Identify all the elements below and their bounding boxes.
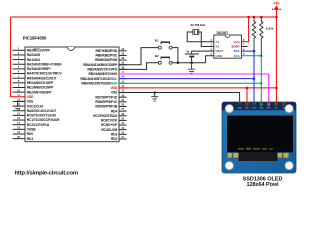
SSD1306 OLED module PCB	[222, 102, 296, 173]
svg-text:VDD: VDD	[27, 95, 34, 99]
DS1307 U2 body	[214, 31, 242, 58]
pin 1 MCLR overline	[33, 48, 40, 50]
svg-text:OSC1/CLKI: OSC1/CLKI	[27, 104, 44, 108]
battery 3v	[185, 50, 199, 57]
PIC pin 35 RB2/AN8/INT2/VMO	[89, 70, 127, 76]
svg-text:RB0/AN12/INT0/SDI/SDA: RB0/AN12/INT0/SDI/SDA	[81, 81, 118, 85]
wire +5V vertical to OLED DC	[275, 10, 277, 104]
svg-text:RC7/RX/DT/SDO: RC7/RX/DT/SDO	[93, 114, 117, 118]
PIC pin 5 RA3/AN3/VREF+	[13, 65, 52, 71]
wire B1 right to common	[172, 48, 178, 63]
svg-text:VUSB: VUSB	[27, 128, 36, 132]
svg-text:RB4/AN11/KBI0/CSSPP: RB4/AN11/KBI0/CSSPP	[83, 63, 118, 67]
PIC pin 21 RD2	[111, 135, 127, 141]
PIC pin 2 RA0/AN0	[13, 51, 41, 57]
OLED screen glint	[238, 148, 273, 150]
wire battery plus to DS1307 VBAT	[192, 51, 214, 54]
OLED header pads	[238, 102, 285, 106]
svg-text:RD1: RD1	[27, 137, 34, 141]
PIC pin 12 VSS	[13, 98, 34, 104]
PIC pin 14 RA6/OSC2/CLKOUT	[13, 107, 57, 113]
DS1307 SOUT stub	[241, 45, 247, 47]
svg-text:32.768 kHz: 32.768 kHz	[190, 23, 205, 27]
svg-text:SDA: SDA	[233, 54, 240, 58]
svg-text:RD6/SPP6/P1C: RD6/SPP6/P1C	[95, 100, 118, 104]
svg-text:RB2/AN8/INT2/VMO: RB2/AN8/INT2/VMO	[89, 72, 118, 76]
PIC pin 37 RB4/AN11/KBI0/CSSPP	[83, 61, 126, 67]
DS1307 pin 4 GND	[210, 52, 223, 58]
PIC VSS pin 12 wire to ground	[18, 101, 25, 106]
wire battery minus	[191, 57, 193, 63]
ground symbol battery	[188, 63, 195, 74]
PIC pin 27 RD4	[111, 107, 127, 113]
wire drop to OLED VDD pad	[246, 88, 248, 103]
svg-text:GND: GND	[237, 107, 242, 109]
junction dots buttons	[177, 62, 193, 64]
DS1307 pin 1 X1	[210, 38, 219, 44]
svg-text:VDD: VDD	[111, 86, 118, 90]
PIC pin 25 RC6/TX/CK	[101, 117, 127, 123]
wire +5V top rail	[11, 16, 277, 18]
svg-text:RA2/AN2/VREF-/CVREF: RA2/AN2/VREF-/CVREF	[27, 62, 62, 66]
svg-text:RB7/KBI3/PGD: RB7/KBI3/PGD	[96, 49, 118, 53]
crystal 32.768 kHz X1	[190, 23, 205, 35]
svg-text:SCK: SCK	[252, 107, 257, 109]
PIC pin 36 RB3/AN9/CCP2/VPO	[87, 65, 126, 71]
wire +5V left drop to PIC VDD pin 11	[11, 17, 25, 97]
svg-text:RES: RES	[267, 107, 272, 109]
svg-text:RA5/AN4/SS/C2OUT: RA5/AN4/SS/C2OUT	[27, 76, 57, 80]
wire B1 to RB4 pin 37	[119, 48, 158, 65]
svg-text:RB5/KBI1/PGM: RB5/KBI1/PGM	[95, 58, 117, 62]
svg-text:DS1307: DS1307	[217, 31, 229, 35]
svg-text:3v: 3v	[186, 50, 190, 54]
push button B1	[155, 39, 172, 50]
ground symbol mid	[151, 93, 158, 102]
PIC pin 11 VDD	[17, 93, 34, 99]
wire SCL vertical DS1307 to OLED	[241, 51, 254, 103]
PIC pin 20 RD1	[13, 135, 34, 141]
OLED flex ribbon	[228, 152, 289, 161]
PIC pin 29 RD6/SPP6/P1C	[95, 98, 126, 104]
PIC pin 18 VUSB	[13, 125, 37, 131]
ground symbol left	[14, 106, 21, 110]
PIC pin 22 RD3	[111, 130, 127, 136]
DS1307 pin 2 X2	[210, 43, 219, 49]
svg-text:RD2: RD2	[111, 137, 118, 141]
wire crystal right to DS1307 X2	[199, 32, 214, 46]
PIC pin 31 VSS	[111, 89, 127, 95]
svg-text:RE1/AN6/CK2SPP: RE1/AN6/CK2SPP	[27, 86, 54, 90]
PIC pin 17 RC2/CCP1/P1A	[13, 121, 50, 127]
PIC pin 23 RC4/D-/VM	[101, 126, 126, 132]
DS1307 pin 7 SOUT	[231, 43, 245, 49]
PIC pin 3 RA1/AN1	[13, 56, 41, 62]
junction dots red VDD line	[246, 87, 278, 89]
PIC pin 1 RE3/MCLR/VPP	[13, 46, 51, 52]
wire B2 to RB3 pin 36	[119, 63, 158, 70]
svg-text:RD3: RD3	[111, 132, 118, 136]
svg-text:X2: X2	[215, 45, 219, 49]
svg-text:RD5/SPP5/P1B: RD5/SPP5/P1B	[95, 105, 118, 109]
svg-text:VSS: VSS	[111, 91, 118, 95]
PIC pin 38 RB5/KBI1/PGM	[95, 56, 126, 62]
svg-text:RE3/MCLR/VPP: RE3/MCLR/VPP	[27, 48, 51, 52]
svg-text:SCL: SCL	[234, 49, 240, 53]
PIC pin 7 RA5/AN4/SS/C2OUT	[13, 74, 57, 80]
svg-text:21: 21	[121, 135, 124, 139]
junction dots green	[260, 55, 262, 85]
svg-text:RD7/SPP7/P1D: RD7/SPP7/P1D	[95, 95, 118, 99]
svg-text:RA0/AN0: RA0/AN0	[27, 53, 41, 57]
svg-text:RD0: RD0	[27, 132, 34, 136]
svg-text:SDA: SDA	[259, 106, 264, 109]
+5V power symbol	[272, 1, 281, 10]
PIC pin 10 RE2/AN7/OESPP	[13, 88, 53, 94]
push button B2	[155, 54, 172, 65]
svg-text:RC6/TX/CK: RC6/TX/CK	[101, 119, 118, 123]
PIC pin 13 OSC1/CLKI	[13, 102, 44, 108]
PIC pin 15 RC0/T1OSO/T13CKI	[13, 112, 56, 118]
svg-text:X1: X1	[215, 40, 219, 44]
svg-text:RC1/T1OSI/CCP2/UOE: RC1/T1OSI/CCP2/UOE	[27, 118, 61, 122]
svg-text:RC5/D+/VP: RC5/D+/VP	[101, 123, 118, 127]
svg-text:RA3/AN3/VREF+: RA3/AN3/VREF+	[27, 67, 51, 71]
svg-text:SOUT: SOUT	[231, 45, 240, 49]
PIC pin 32 VDD	[111, 84, 127, 90]
svg-text:http://simple-circuit.com: http://simple-circuit.com	[15, 170, 78, 176]
svg-text:RA6/OSC2/CLKOUT: RA6/OSC2/CLKOUT	[27, 109, 56, 113]
PIC pin 26 RC7/RX/DT/SDO	[93, 112, 126, 118]
svg-text:VBAT: VBAT	[215, 49, 223, 53]
PIC pin 19 RD0	[13, 130, 34, 136]
OLED pin labels	[237, 106, 285, 109]
svg-text:RC4/D-/VM: RC4/D-/VM	[101, 128, 117, 132]
svg-text:RC2/CCP1/P1A: RC2/CCP1/P1A	[27, 123, 50, 127]
wire VSS pin 31 to OLED GND	[119, 93, 240, 103]
wire VDD pin 32 to +5V	[119, 87, 276, 89]
svg-text:VCC: VCC	[233, 40, 240, 44]
resistor R1 10k SCL pullup	[252, 17, 255, 51]
wire B2 right to battery/ground junction	[172, 62, 206, 64]
PIC pin 40 RB7/KBI3/PGD	[96, 47, 127, 53]
PIC pin 30 RD7/SPP7/P1D	[95, 93, 126, 99]
svg-text:RA4/T0CKI/C1OUT/RCV: RA4/T0CKI/C1OUT/RCV	[27, 72, 63, 76]
wire SCL blue pin 34	[119, 78, 254, 80]
PIC pin 4 RA2/AN2/VREF-/CVREF	[13, 60, 62, 66]
svg-text:18: 18	[17, 125, 20, 129]
wire crystal left to DS1307 X1	[187, 32, 214, 42]
PIC pin 28 RD5/SPP5/P1B	[95, 103, 126, 109]
svg-text:128x64 Pixel: 128x64 Pixel	[246, 182, 279, 188]
OLED mounting holes	[225, 105, 293, 170]
svg-text:RA1/AN1: RA1/AN1	[27, 58, 41, 62]
svg-text:RC0/T1OSO/T13CKI: RC0/T1OSO/T13CKI	[27, 114, 56, 118]
svg-text:RE2/AN7/OESPP: RE2/AN7/OESPP	[27, 90, 53, 94]
svg-text:B2: B2	[155, 54, 159, 58]
OLED pad gaps	[232, 153, 284, 158]
DS1307 pin 6 SCL	[234, 47, 245, 53]
svg-text:2x10k: 2x10k	[266, 26, 274, 30]
PIC pin 24 RC5/D+/VP	[101, 121, 126, 127]
svg-text:RB1/AN10/INT1/SCK/SCL: RB1/AN10/INT1/SCK/SCL	[80, 77, 117, 81]
wire SDA vertical DS1307 to OLED	[241, 56, 261, 103]
wire SDA green pin 33	[119, 82, 261, 84]
DS1307 pin 5 SDA	[233, 52, 245, 58]
svg-text:VSS: VSS	[27, 100, 34, 104]
DS1307 pin 8 VCC	[233, 38, 245, 44]
svg-text:PIC18F4550: PIC18F4550	[23, 36, 47, 41]
wire DS1307 GND pin 4	[206, 56, 214, 63]
PIC pin 9 RE1/AN6/CK2SPP	[13, 84, 54, 90]
svg-text:RD4: RD4	[111, 109, 118, 113]
PIC pin 39 RB6/KBI2/PGC	[96, 52, 127, 58]
svg-text:RB6/KBI2/PGC: RB6/KBI2/PGC	[96, 54, 118, 58]
junction dot VSS ground tap	[154, 91, 156, 93]
DS1307 pin 3 VBAT	[210, 47, 223, 53]
PIC pin 16 RC1/T1OSI/CCP2/UOE	[13, 116, 61, 122]
PIC pin 34 RB1/AN10/INT1/SCK/SCL	[80, 75, 126, 81]
svg-text:RE0/AN5/CK1SPP: RE0/AN5/CK1SPP	[27, 81, 54, 85]
svg-text:22: 22	[121, 130, 124, 134]
PIC pin 6 RA4/T0CKI/C1OUT/RCV	[13, 70, 63, 76]
junction dots blue	[253, 50, 255, 80]
wire DS1307 VCC riser to rail	[241, 17, 248, 42]
PIC pin 8 RE0/AN5/CK1SPP	[13, 79, 54, 85]
PIC pin 33 RB0/AN12/INT0/SDI/SDA	[81, 79, 126, 85]
junction dots red rail	[248, 16, 278, 18]
svg-text:GND: GND	[215, 54, 223, 58]
PIC18F4550 U1 body	[23, 36, 119, 142]
resistor R2 10k SDA pullup	[260, 17, 263, 56]
svg-text:RB3/AN9/CCP2/VPO: RB3/AN9/CCP2/VPO	[87, 68, 117, 72]
svg-text:+5V: +5V	[273, 1, 280, 5]
OLED screen	[227, 116, 293, 153]
svg-text:B1: B1	[155, 39, 159, 43]
wire RES magenta pin 35 to OLED RES	[119, 74, 269, 103]
svg-text:VDD: VDD	[245, 107, 250, 109]
